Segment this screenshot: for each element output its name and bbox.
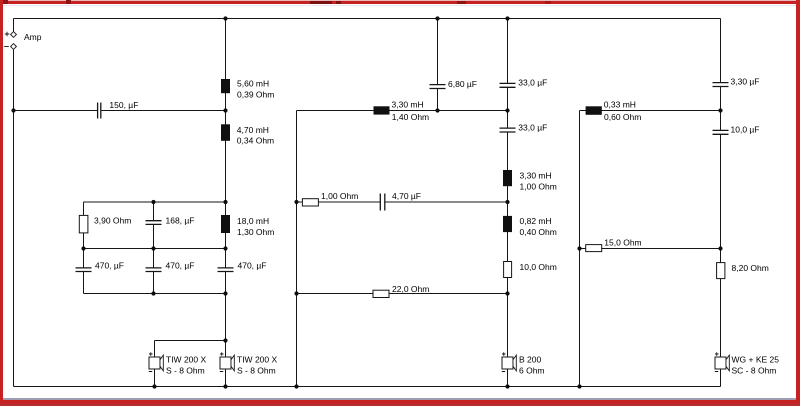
svg-text:1,30 Ohm: 1,30 Ohm (237, 227, 274, 237)
svg-text:1,00 Ohm: 1,00 Ohm (520, 181, 557, 191)
svg-text:10,0 µF: 10,0 µF (731, 125, 760, 135)
svg-text:1,00 Ohm: 1,00 Ohm (321, 191, 358, 201)
svg-text:10,0 Ohm: 10,0 Ohm (520, 262, 557, 272)
svg-text:TIW 200 X: TIW 200 X (166, 354, 206, 364)
svg-text:SC - 8 Ohm: SC - 8 Ohm (732, 365, 777, 375)
svg-text:0,82 mH: 0,82 mH (520, 216, 552, 226)
svg-text:0,60 Ohm: 0,60 Ohm (604, 112, 641, 122)
svg-text:3,90 Ohm: 3,90 Ohm (94, 215, 131, 225)
svg-text:470, µF: 470, µF (166, 260, 195, 270)
svg-text:470, µF: 470, µF (238, 260, 267, 270)
svg-text:S - 8 Ohm: S - 8 Ohm (166, 365, 205, 375)
svg-text:Amp: Amp (24, 32, 42, 42)
svg-text:0,40 Ohm: 0,40 Ohm (520, 227, 557, 237)
svg-text:470, µF: 470, µF (95, 260, 124, 270)
svg-text:168, µF: 168, µF (166, 215, 195, 225)
svg-text:6 Ohm: 6 Ohm (519, 365, 545, 375)
svg-text:TIW 200 X: TIW 200 X (237, 354, 277, 364)
svg-text:WG + KE 25: WG + KE 25 (732, 354, 780, 364)
svg-text:15,0 Ohm: 15,0 Ohm (604, 238, 641, 248)
svg-text:1,40 Ohm: 1,40 Ohm (392, 112, 429, 122)
svg-text:33,0 µF: 33,0 µF (518, 78, 547, 88)
svg-text:4,70 mH: 4,70 mH (237, 125, 269, 135)
svg-text:22,0 Ohm: 22,0 Ohm (392, 284, 429, 294)
svg-text:B 200: B 200 (519, 354, 541, 364)
svg-text:S - 8 Ohm: S - 8 Ohm (237, 365, 276, 375)
svg-text:33,0 µF: 33,0 µF (518, 122, 547, 132)
svg-text:150, µF: 150, µF (109, 100, 138, 110)
svg-text:3,30 mH: 3,30 mH (520, 170, 552, 180)
svg-text:0,33 mH: 0,33 mH (604, 100, 636, 110)
svg-text:3,30 µF: 3,30 µF (731, 77, 760, 87)
svg-text:6,80 µF: 6,80 µF (448, 79, 477, 89)
svg-text:3,30 mH: 3,30 mH (392, 100, 424, 110)
svg-text:4,70 µF: 4,70 µF (392, 191, 421, 201)
svg-text:8,20 Ohm: 8,20 Ohm (732, 263, 769, 273)
svg-text:0,34 Ohm: 0,34 Ohm (237, 136, 274, 146)
svg-text:18,0 mH: 18,0 mH (237, 216, 269, 226)
svg-text:5,60 mH: 5,60 mH (237, 78, 269, 88)
svg-text:0,39 Ohm: 0,39 Ohm (237, 89, 274, 99)
